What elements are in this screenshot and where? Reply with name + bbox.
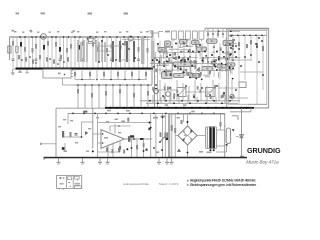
bridge rectifier outline [178,126,197,145]
legend foot a [59,188,60,189]
junction IF 25 [169,54,171,56]
mid left vertical 1 [154,57,156,108]
wire IF-bus 2 [164,83,166,101]
phono jack [230,94,234,98]
resistor Rm16 [215,59,217,63]
wire drop 23 (tuner) [102,37,104,68]
power label [199,151,203,153]
junction dot rail 14 [102,36,104,38]
wire drop 13 (tuner) [59,37,61,68]
junction IF 16 [177,67,179,69]
wire rb drop 5 [256,35,258,104]
power mid junction [187,152,189,154]
power box frame [170,114,225,157]
IF can bar 2 [80,42,82,62]
antenna coupling capacitor [8,46,11,53]
component label b3 [30,31,32,32]
wire drop 6 (tuner) [32,37,34,68]
resistor R30 [133,42,135,47]
junction row3 9 [133,84,135,86]
wire link y46 [95,45,120,47]
junction IF 37 [156,59,158,61]
dark part IF 5 [170,73,172,76]
resistor Rc11 [147,91,149,96]
solder junction IF 3 [213,60,215,62]
IF filter/IC block U10 [217,64,226,68]
right block left column dot 3 [229,43,231,45]
speaker feed vertical [241,108,243,157]
IF block U8 pin mark [184,64,186,65]
wire drop row2 6 [110,69,112,80]
junction tuner 7 [128,48,130,50]
wire stub off-frame [40,143,56,145]
wire IF v48 [228,55,230,59]
resistor R6 [32,48,34,53]
amp feedback wire h [98,151,121,153]
coupling wire [82,121,93,123]
junction rail1 4 [130,107,132,109]
long wire drop 4 [98,85,100,108]
legend divider 2 [72,175,74,188]
wire IF v37 [189,59,191,63]
preset box 2 [179,31,184,39]
right block left column dot 2 [233,39,235,41]
right block part [239,82,246,88]
bus drop 6 [196,97,198,103]
IF block U11 pin mark [230,64,232,65]
lower comb junction 1 [21,59,23,61]
resistor Rp1 [174,128,176,133]
long wire drop 6 [112,85,114,108]
right block left column dot 1 [230,35,232,37]
feedback junction [118,125,120,127]
wire IF v42 [165,69,167,77]
IF block U9 pin mark [206,68,208,69]
power left vert 1 [171,114,173,157]
wire drop 33 (tuner) [147,37,149,68]
solder junction IF 13 [215,66,217,68]
junction IF 24 [157,43,159,45]
legend foot b [63,189,64,190]
component label a9 [140,32,142,33]
resistor R21 [92,42,94,47]
wire drop mid-top 3 [217,28,219,38]
resistor Rl13 [233,95,235,98]
resistor R4 [24,47,26,52]
junction rail2 2 [83,113,85,115]
AGC row wire [75,79,95,81]
svg-text:Stand: 4.1972: Stand: 4.1972 [159,182,179,186]
svg-text:GRUNDIG: GRUNDIG [247,146,281,155]
transistor T4 [154,89,159,94]
junction rail1 7 [151,107,153,109]
wire IF-bus 12 [225,86,227,101]
wire IF-bus 13 [231,80,233,101]
bus left ground bar2 [12,73,14,76]
preset box 1 [172,31,177,39]
resistor R25 [111,44,113,49]
component label b2 [22,32,24,33]
lower comb resistor 5 [46,57,48,61]
resistor Rm23 [209,71,211,75]
junction rail1 16 [222,107,224,109]
bias resistor 1 [106,148,108,152]
bridge right wire [197,135,205,137]
IF can bar 1 [77,40,79,62]
tuning gang pins 2 [71,73,73,75]
junction rail2 10 [177,113,179,115]
volume pot wire [62,136,81,138]
wire drop 31 (tuner) [138,37,140,68]
capacitor C25 [110,58,113,60]
junction rb 4 [249,34,251,36]
junction row3 1 [77,84,79,86]
junction IF 21 [163,65,165,67]
legend right box low [74,186,81,189]
IF block U10 pin mark [221,66,223,67]
nest line A drop [250,108,252,112]
junction rb 1 [231,34,233,36]
IF block U13 pin mark [178,75,180,76]
electrolytic capacitor C out [226,128,230,144]
resistor Rc5 [105,91,107,96]
ground symbol below 5 [158,158,160,162]
stub mark [40,143,42,145]
wire link y60 [118,59,130,61]
dark part IF 8 [214,64,216,67]
IF filter/IC block U4 [207,39,218,44]
lower comb resistor 6 [53,59,55,63]
junction row2 2 [81,79,83,81]
wire IF h15 [156,64,164,66]
junction rail1 3 [123,107,125,109]
wire IF v35 [201,47,203,52]
resistor Rm7 [195,44,197,48]
wire drop 4 (tuner) [24,37,26,68]
wire IF-bus 5 [182,83,184,101]
junction rail1 17 [231,107,233,109]
capacitor Cm1 [207,33,209,36]
IF filter/IC block U8 [174,62,197,67]
junction amp 3 [81,136,83,138]
diode D5 [85,131,88,135]
bus wire B [146,102,238,104]
input bracket 2 [159,32,163,38]
ground sym amp 1 [64,151,67,152]
oscillator coil shield 2 [151,41,154,64]
speaker return bend [226,145,228,152]
second rail [68,112,225,114]
resistor Rm25 [198,73,200,77]
transformer winding left 2 [206,127,208,149]
junction rail2 7 [141,113,143,115]
long wire drop 2 [84,85,86,108]
junction tuner 1 [101,40,103,42]
amp input wire+ [93,133,102,135]
wire drop 1 (tuner) [12,37,14,68]
solder junction IF 14 [184,61,186,63]
resistor Rc9 [133,93,135,98]
solder junction IF 8 [225,63,227,65]
junction bus 5 [181,100,183,102]
IF filter/IC block U1 [165,41,171,46]
capacitor C13 [59,58,62,60]
resistor Rl10 [164,96,166,99]
resistor Rm26 [220,47,222,51]
feedback resistor [127,118,129,122]
junction rb2 1 [232,45,234,47]
wire IF-bus 10 [212,80,214,101]
transistor T1 [41,34,47,40]
capacitor C7 [35,58,38,60]
junction row3 2 [84,84,86,86]
resistor Rm21 [190,60,192,64]
lower IF wire h2 [185,91,212,93]
wire IF v14 [185,69,187,75]
frame corner drop [204,28,206,31]
transformer junction 1 [210,149,212,151]
note bullet 2 [187,184,189,186]
resistor R22 [97,47,99,52]
dark part IF 3 [178,56,180,59]
wire IF mesh v3 [165,43,167,77]
junction at T1 base [40,36,42,38]
junction bus 6 [189,102,191,104]
bus drop 7 [206,95,208,103]
resistor Rm17 [198,67,200,71]
resistor Rm9 [155,69,157,73]
lower comb junction 3 [49,58,51,60]
label above rail p2 [183,104,186,106]
junction rail1 15 [215,107,217,109]
junction IF 20 [219,69,221,71]
mains cap 2 [164,132,166,138]
junction dot rail 13 [95,36,97,38]
junction rail1 2 [116,107,118,109]
long wire drop 1 [77,85,79,108]
wire drop 18 (tuner) [78,37,80,68]
bus wire A [140,100,240,102]
long wire drop 7 [119,85,121,108]
junction mid-top 4 [222,33,224,35]
resistor R1 [12,41,14,46]
junction IF 32 [230,47,232,49]
solder junction IF 17 [189,77,191,79]
wire IF mesh v1 [153,38,155,72]
schematic bottom edge [44,157,247,159]
label feedback 1 [115,119,118,121]
wire IF h1 [179,46,183,48]
resistor R16 [70,44,72,49]
IF mesh wire h3 [158,69,188,71]
transformer winding left [205,127,207,149]
amp feedback wire [119,141,121,153]
junction IF 23 [232,59,234,61]
diode D6 bar [240,137,244,139]
IF filter/IC block U3 [192,40,200,44]
resistor R9 [43,45,45,50]
label amp 3 [75,142,78,143]
svg-text:Music-Boy 471a: Music-Boy 471a [246,159,279,164]
amp frame top (thin) [56,107,105,109]
legend equals 2 [75,184,80,187]
right block rail [228,34,266,36]
wire IF v57 [180,61,182,64]
junction lower IF 11 [230,96,232,98]
resistor R31 [138,47,140,52]
resistor Rm13 [198,68,200,72]
mains plug arrow [177,149,181,152]
power part extra [181,120,183,124]
amp pin wire bot [107,145,109,158]
junction bus 1 [149,100,151,102]
wire IF h5 [203,74,209,76]
resistor Rc7 [119,89,121,94]
wire IF h50 [220,58,229,60]
junction dot rail 20 [144,36,146,38]
right block mid wire [228,59,252,61]
IF mesh wire h1 [155,57,198,59]
junction rb 6 [261,34,263,36]
junction bridge top [187,121,189,123]
junction under tip [126,148,128,150]
junction tuner 3 [115,59,117,61]
junction lower IF 7 [201,87,203,89]
wire IF mesh v11 [213,41,215,78]
dark part IF 1 [218,58,220,61]
ground bus (thick black) [16,68,154,70]
mains wire 4 [164,113,166,157]
junction rail1 5 [137,107,139,109]
dark part IF 2 [187,58,189,61]
junction row2 8 [124,79,126,81]
bus left ground bar [11,73,15,74]
wire IF mesh v13 [225,38,227,72]
resistor R3 [20,42,22,47]
wire rb drop 4 [250,35,252,60]
legend square b [63,177,65,179]
svg-text:Gleichspannungen gem. mit Rohr: Gleichspannungen gem. mit Rohrenvoltmete… [190,183,257,187]
amp pin dot - [102,142,104,144]
junction rail2 6 [129,113,131,115]
transformer core bar 1 [209,126,211,149]
IF block U7 pin mark [201,49,203,50]
wire IF h6 [231,43,236,45]
preset box 3 [186,31,191,39]
lower comb resistor 3 [32,59,34,63]
junction IF 36 [223,56,225,58]
bridge cross 2 [182,131,193,140]
wire drop 14 (tuner) [63,37,65,68]
bias resistor 4 [123,150,125,154]
resistor Rl2 [210,96,212,99]
resistor R12 [55,42,57,47]
IF filter/IC block U13 [174,73,185,77]
output drop junction [131,147,133,149]
IF block U14 pin mark [194,75,196,76]
wire drop 27 (tuner) [120,37,122,68]
component label a5 [96,32,98,33]
junction IF 27 [189,56,191,58]
bus drop 8 [215,97,217,103]
transformer winding right [215,127,217,149]
trimmer box [16,47,19,53]
wire IF h30 [225,68,234,70]
label amp 7 [88,128,91,129]
wire IF h11 [189,52,198,54]
junction supply [149,122,151,124]
preset box tick 5 [200,39,202,41]
wire IF v60 [172,52,174,59]
ground symbol below bar2 1 [57,163,59,166]
junction mains 2 [161,149,163,151]
wire IF h44 [221,69,230,71]
ground symbol below 6 [166,158,168,162]
wire IF v10 [206,57,208,64]
junction dot rail 3 [31,36,33,38]
resistor Rl8 [223,92,225,95]
resistor Rb5 [103,72,105,76]
legend mid mark [68,182,70,183]
wire drop 26 (tuner) [115,37,117,68]
junction row2 10 [138,79,140,81]
wire IF v52 [212,59,214,67]
wire IF v12 [172,62,174,70]
IF block U2 pin mark [182,41,184,42]
junction lower IF 8 [209,94,211,96]
node label top 4 [124,13,129,15]
junction IF 29 [211,54,213,56]
wire IF v33 [179,44,181,48]
junction rail2 5 [117,113,119,115]
wire IF h53 [180,69,186,71]
wire drop row2 10 [138,69,140,80]
bridge diode D4 [181,138,185,142]
junction IF 40 [228,66,230,68]
resistor R24 [106,48,108,53]
wire IF mesh v10 [207,38,209,75]
capacitor C19 [82,58,85,60]
resistor Rl15 [193,94,195,97]
driver box 1 diagonal [177,88,186,97]
junction bus 8 [205,102,207,104]
transistor T5 [166,92,171,97]
junction rb2 10 [262,74,264,76]
bus drop 4 [178,97,180,103]
junction mains [153,147,155,149]
junction rb 3 [243,34,245,36]
ground symbol below bar2 3 [99,163,101,166]
junction rail2 3 [94,113,96,115]
label feedback 2 [122,121,125,123]
ground symbol below bar 4 [106,162,110,163]
IF mesh wire h2 [205,57,233,59]
lower comb resistor 1 [18,55,20,59]
junction IF 34 [180,51,182,53]
component label b1 [14,31,16,32]
junction IF 15 [166,56,168,58]
junction lower IF 12 [235,89,237,91]
junction rail1 1 [109,107,111,109]
resistor R13 [59,47,61,52]
wire IF mesh v14 [231,41,233,75]
capacitor C25 plate [110,60,113,62]
right block part 3 [262,46,264,50]
output drop 1 [131,139,133,157]
wire IF-bus 1 [159,80,161,101]
junction bus 10 [221,102,223,104]
junction dot rail 1 [19,36,21,38]
